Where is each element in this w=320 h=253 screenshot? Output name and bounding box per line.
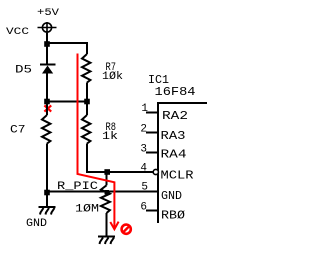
+5V supply symbol — [38, 22, 57, 33]
svg-text:1Øk: 1Øk — [102, 71, 123, 83]
junction node D — [44, 190, 50, 196]
IC1 box outline — [157, 102, 207, 223]
svg-text:RA3: RA3 — [161, 129, 186, 143]
svg-text:+5V: +5V — [37, 8, 59, 19]
junction node B — [44, 99, 50, 105]
wire GND rail: node D to IC pin 5 — [46, 191, 157, 193]
wire node A to D5 cathode — [46, 44, 48, 64]
D5 triangle (anode) — [42, 66, 53, 74]
junction node A — [44, 41, 50, 47]
svg-text:RA2: RA2 — [162, 109, 188, 123]
wire R7 bottom to node C — [86, 83, 88, 102]
svg-text:16F84: 16F84 — [155, 86, 196, 99]
svg-text:VCC: VCC — [6, 27, 29, 38]
svg-text:MCLR: MCLR — [161, 169, 194, 183]
ground symbol right (under R_PIC) — [98, 237, 115, 245]
red X mark over C7 wire — [44, 105, 51, 111]
svg-text:2: 2 — [140, 124, 147, 136]
resistor R7 — [82, 54, 90, 83]
pin 2 stub — [146, 132, 158, 134]
capacitor C7 (drawn as zigzag) — [46, 102, 48, 116]
svg-text:1k: 1k — [102, 131, 118, 143]
ground symbol left — [39, 207, 56, 215]
junction dot on GND wire crossing — [105, 190, 110, 195]
wire node A to R7 top — [47, 43, 87, 54]
wire R8 to MCLR pin 4 — [87, 144, 153, 173]
red no-symbol (circle with slash) — [122, 225, 131, 234]
pin 1 stub — [146, 112, 158, 114]
junction node C — [84, 99, 90, 105]
svg-text:5: 5 — [141, 182, 148, 194]
svg-text:3: 3 — [140, 144, 147, 156]
red highlight wire path — [78, 54, 115, 228]
wire D5 anode to node B — [46, 74, 48, 102]
svg-text:C7: C7 — [10, 125, 26, 137]
svg-text:RBØ: RBØ — [161, 209, 185, 223]
resistor R_PIC 10M — [106, 172, 108, 185]
wire node B to node C — [47, 101, 87, 103]
svg-text:1: 1 — [141, 103, 148, 115]
svg-text:GND: GND — [26, 218, 47, 230]
svg-text:1ØM: 1ØM — [75, 204, 99, 216]
svg-text:6: 6 — [140, 202, 147, 214]
D5 cathode bar — [40, 64, 56, 66]
junction node MCLR / R_PIC — [104, 169, 110, 175]
wire R_PIC bottom to ground — [106, 213, 108, 236]
svg-text:RA4: RA4 — [161, 148, 187, 162]
red arrowhead — [110, 222, 118, 230]
svg-text:4: 4 — [140, 163, 147, 175]
wire C7 bottom to ground — [46, 144, 48, 207]
pin 3 stub — [146, 152, 158, 154]
diode D5 — [40, 44, 56, 102]
pin 4 MCLR inversion bubble — [153, 169, 158, 174]
pin 6 stub — [146, 210, 158, 212]
svg-text:D5: D5 — [15, 65, 32, 77]
svg-text:GND: GND — [161, 189, 182, 203]
wire +5V to node A — [46, 33, 48, 44]
resistor R8 — [86, 102, 88, 116]
